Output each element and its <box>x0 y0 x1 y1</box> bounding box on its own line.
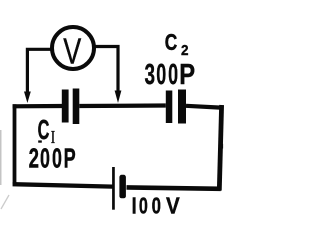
label 200P value of C1 <box>29 143 76 174</box>
svg-text:2: 2 <box>29 143 39 173</box>
scan speck above 200P <box>38 140 42 142</box>
svg-text:P: P <box>179 58 195 91</box>
label 100V battery voltage <box>132 192 181 219</box>
scan artifact bottom left diagonal <box>1 195 9 209</box>
wire left vertical <box>13 104 17 184</box>
wire right vertical <box>219 105 221 191</box>
svg-text:P: P <box>64 143 76 174</box>
svg-text:V: V <box>63 31 81 72</box>
capacitor C2 <box>166 90 186 124</box>
wire top right segment <box>186 106 221 108</box>
svg-text:0: 0 <box>139 194 148 219</box>
wire bottom left segment <box>13 184 113 186</box>
scan nub on right wire <box>222 144 224 149</box>
svg-text:0: 0 <box>168 59 178 91</box>
label C1 <box>38 114 56 147</box>
capacitor C1 <box>62 89 79 125</box>
wire voltmeter right lead <box>95 47 119 93</box>
svg-text:0: 0 <box>52 143 62 174</box>
wire top middle segment <box>79 103 166 108</box>
svg-text:0: 0 <box>156 59 166 91</box>
probe arrow left <box>24 92 31 104</box>
scan artifact left edge <box>0 130 2 185</box>
wire voltmeter left lead <box>27 49 51 93</box>
svg-text:3: 3 <box>145 59 156 91</box>
svg-text:0: 0 <box>152 194 161 219</box>
label 300P value of C2 <box>145 58 196 91</box>
wire top left segment <box>13 104 62 109</box>
svg-text:I: I <box>132 194 137 220</box>
svg-text:V: V <box>166 192 180 218</box>
svg-text:C: C <box>38 114 50 145</box>
probe arrow right <box>115 91 122 104</box>
svg-text:0: 0 <box>40 143 50 174</box>
wire bottom right segment <box>127 187 221 188</box>
svg-text:C: C <box>165 29 178 55</box>
battery B1 <box>112 167 126 210</box>
voltmeter U1 <box>52 27 94 72</box>
label C2 <box>165 29 189 59</box>
